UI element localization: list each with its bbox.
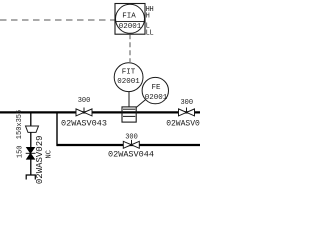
svg-text:300: 300 (78, 97, 91, 105)
svg-text:150x355: 150x355 (16, 110, 24, 139)
svg-text:NC: NC (46, 150, 54, 158)
svg-text:02001: 02001 (117, 78, 140, 86)
svg-text:02WASV043: 02WASV043 (61, 119, 107, 129)
svg-text:FE: FE (151, 84, 161, 92)
svg-text:02WASV029: 02WASV029 (35, 135, 45, 184)
svg-text:02001: 02001 (119, 23, 142, 31)
svg-text:150: 150 (17, 145, 25, 158)
svg-text:02WASV044: 02WASV044 (108, 149, 154, 159)
svg-text:FIA: FIA (122, 13, 136, 21)
svg-text:FIT: FIT (122, 69, 136, 77)
svg-text:02WASV045: 02WASV045 (166, 119, 200, 128)
svg-text:H: H (146, 13, 150, 21)
svg-text:300: 300 (180, 99, 193, 107)
svg-text:LL: LL (146, 29, 154, 37)
svg-text:300: 300 (125, 134, 138, 142)
svg-text:02001: 02001 (145, 94, 168, 102)
